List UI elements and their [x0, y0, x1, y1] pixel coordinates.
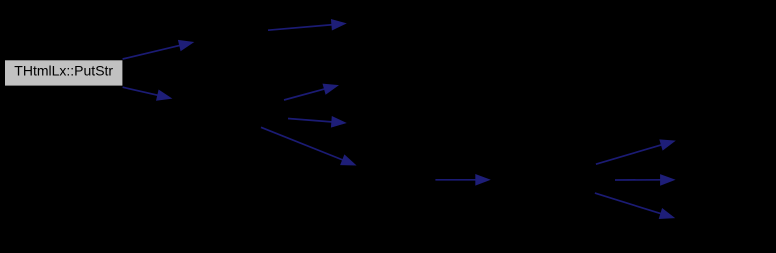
node box: THtmlLx::PutStr (current/highlighted node) [5, 60, 122, 85]
edge D3 [595, 193, 675, 219]
edge A3 [268, 19, 347, 31]
edge D1 [596, 139, 676, 164]
edge A2 [123, 87, 173, 101]
edge C1 [435, 174, 490, 186]
edge B1 [284, 84, 339, 100]
svg-text:THtmlLx::PutStr: THtmlLx::PutStr [14, 63, 113, 79]
edge B3 [261, 127, 357, 165]
edge A1 [123, 40, 195, 59]
edge B2 [288, 116, 347, 128]
edge D2 [615, 174, 676, 186]
